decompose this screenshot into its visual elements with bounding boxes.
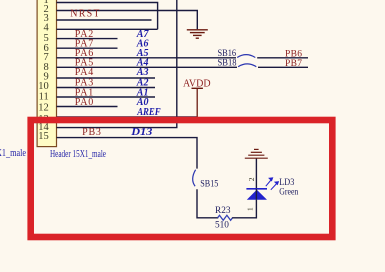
svg-text:NRST: NRST — [70, 9, 100, 20]
resistor R23 zigzag — [218, 215, 233, 220]
svg-text:X1_male: X1_male — [0, 148, 26, 159]
LED LD3 cathode bar — [246, 188, 267, 190]
red annotation rectangle — [31, 120, 333, 237]
wire LED top to ground — [255, 158, 257, 189]
power port AVDD bar — [192, 87, 203, 89]
LED arrow 2 — [271, 182, 279, 190]
svg-text:Header 15X1_male: Header 15X1_male — [50, 149, 106, 160]
wire pin10 — [57, 87, 156, 89]
wire pin15 D13 to SB15 — [57, 138, 198, 169]
svg-text:AREF: AREF — [136, 107, 161, 118]
svg-text:PB3: PB3 — [82, 127, 102, 138]
solder bridge SB15 arc — [193, 170, 196, 187]
svg-text:D13: D13 — [130, 127, 152, 138]
svg-text:2: 2 — [247, 177, 256, 181]
solder bridge SB18 arc — [238, 64, 256, 67]
wire through LED — [255, 189, 257, 200]
wire pin4 — [57, 28, 158, 30]
wire pin8 left segment — [57, 66, 238, 68]
svg-text:Green: Green — [279, 187, 298, 197]
svg-text:SB15: SB15 — [200, 178, 218, 189]
svg-text:PB7: PB7 — [285, 59, 302, 69]
wire pin3 — [57, 19, 152, 21]
wire pin13 (hidden under red box) — [57, 116, 198, 118]
svg-text:A3: A3 — [136, 67, 149, 78]
solder bridge SB16 arc — [237, 55, 255, 58]
wire pin14 with corner up — [57, 0, 177, 128]
svg-text:LD3: LD3 — [279, 177, 294, 187]
wire SB15 bottom to R23 corner — [197, 189, 218, 218]
wire pin7 left segment — [57, 57, 237, 59]
wire pin9 — [57, 77, 156, 79]
wire pin7 right segment to PB6 — [257, 57, 308, 59]
ground symbol above LED (inverted) — [245, 149, 268, 158]
wire R23 to LED corner — [232, 200, 256, 218]
wire pin5 stub — [57, 38, 118, 40]
wire pin2 (NRST to ground) — [57, 11, 198, 30]
svg-text:R23: R23 — [215, 206, 231, 216]
svg-text:11: 11 — [39, 92, 49, 103]
svg-text:12: 12 — [38, 103, 49, 114]
ground symbol top (on NRST net) — [187, 30, 208, 38]
power port AVDD stem — [196, 88, 198, 117]
connector J1 body (Header 15X1_male) — [37, 0, 56, 147]
svg-text:PB6: PB6 — [285, 49, 302, 59]
svg-text:10: 10 — [38, 81, 49, 92]
svg-text:A0: A0 — [136, 97, 149, 108]
wire pin1 — [57, 3, 158, 30]
LED LD3 triangle — [247, 190, 267, 200]
LED arrow 1 — [266, 178, 273, 186]
svg-text:PA0: PA0 — [75, 97, 94, 108]
svg-text:PA4: PA4 — [75, 67, 94, 78]
wire pin8 right segment to PB7 — [258, 66, 308, 68]
svg-text:510: 510 — [215, 220, 229, 230]
wire pin12 stub — [57, 106, 118, 108]
wire pin11 — [57, 96, 156, 98]
svg-text:1: 1 — [246, 207, 255, 211]
wire pin6 stub — [57, 47, 118, 49]
svg-text:15: 15 — [38, 131, 49, 142]
svg-text:SB18: SB18 — [218, 57, 237, 68]
